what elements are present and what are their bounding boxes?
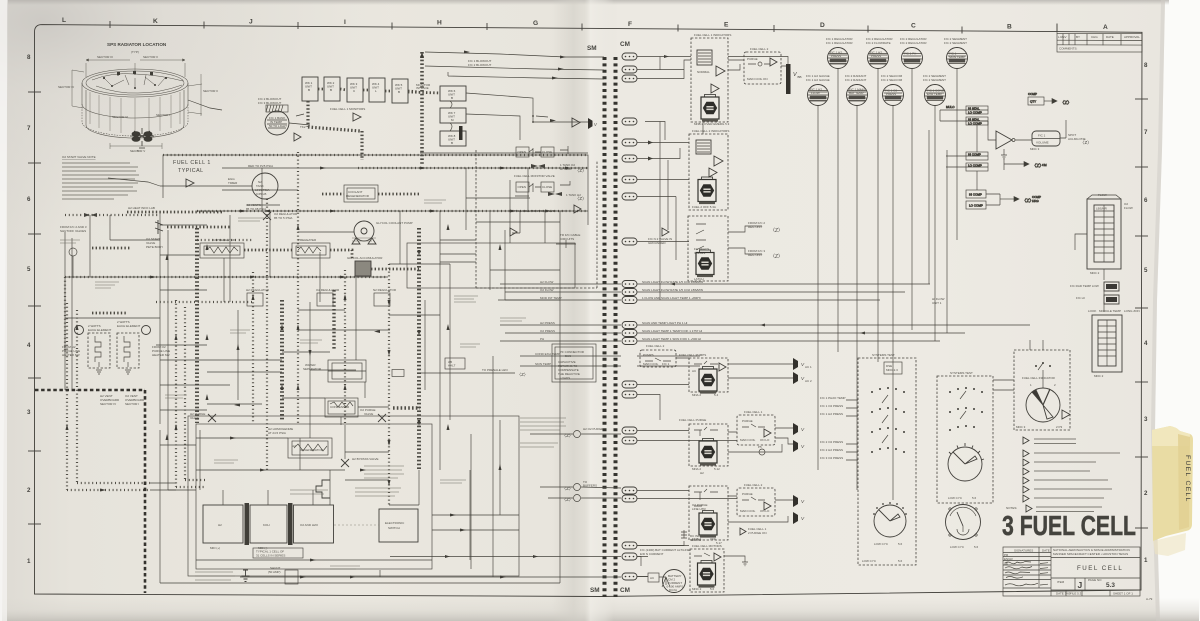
monitor column box W7 (440, 108, 466, 123)
breaker CB16 (622, 381, 637, 388)
stair step symbol (316, 480, 330, 498)
svg-text:3: 3 (27, 409, 31, 416)
rim valve fittings (103, 71, 167, 89)
wire v510 (509, 180, 511, 243)
monitor column box W8 (440, 131, 466, 146)
svg-text:B: B (398, 90, 400, 94)
inter-box pipe links (318, 89, 419, 92)
wires out right (728, 226, 762, 254)
zone letters top (62, 17, 1108, 31)
breaker CB19 (622, 437, 637, 444)
svg-text:F/C 2 SEACOM: F/C 2 SEACOM (881, 78, 903, 82)
top ticks (110, 21, 1057, 34)
purge valve right (378, 414, 386, 422)
wire v310 (309, 302, 311, 438)
svg-text:FUEL CELL: FUEL CELL (1077, 565, 1123, 572)
glycol accumulator (355, 261, 371, 276)
wire v505 (504, 230, 506, 300)
wire h372 (207, 371, 282, 373)
dimension lines top (72, 59, 202, 149)
wire h445 (160, 444, 196, 446)
svg-text:OPEN: OPEN (518, 185, 527, 189)
svg-text:BUFFERS: BUFFERS (583, 484, 597, 488)
left ticks (28, 92, 41, 524)
wire v270 (269, 211, 271, 277)
wire arrows (560, 56, 566, 59)
CM breaker column (622, 53, 637, 580)
F/C bank temp gauge cluster (258, 97, 310, 141)
svg-text:H2 HEAT INFO LAB: H2 HEAT INFO LAB (128, 206, 155, 210)
svg-text:FUEL CELL 2: FUEL CELL 2 (646, 344, 665, 348)
line y583 continues (379, 570, 381, 577)
svg-text:TIMER: TIMER (228, 181, 238, 185)
svg-text:CIRCUITS: CIRCUITS (560, 237, 574, 241)
svg-text:O2 PRESS: O2 PRESS (540, 329, 555, 333)
svg-text:F/C 2 REGULATOR: F/C 2 REGULATOR (900, 41, 927, 45)
amp triangle 1 (716, 66, 725, 76)
svg-text:B: B (451, 96, 453, 100)
breaker CB21 (622, 495, 637, 502)
breaker CB5 (622, 139, 637, 146)
stack cell 2 (250, 505, 287, 543)
fuel cell radiator indicator (993, 340, 1070, 430)
bypass valve (341, 459, 349, 467)
wire v440 (439, 211, 441, 470)
svg-text:FLOW: FLOW (1098, 193, 1107, 197)
leader lines (289, 114, 310, 125)
line v528 (527, 168, 529, 211)
breaker CB2 (622, 66, 637, 73)
rotary hex unit 1 (701, 95, 719, 122)
svg-text:MNB 2 OVER EMERG 5.3: MNB 2 OVER EMERG 5.3 (694, 122, 730, 126)
hex unit motors (698, 561, 716, 588)
svg-text:SYSTEMS TEST: SYSTEMS TEST (872, 353, 895, 357)
svg-text:COMP: COMP (1028, 92, 1037, 96)
svg-text:FUEL CELL MONITOR VALVE: FUEL CELL MONITOR VALVE (514, 174, 555, 178)
purge valve left (208, 414, 216, 422)
V flag near SM (588, 118, 593, 129)
svg-text:CONDENSER: CONDENSER (330, 405, 350, 409)
svg-text:ITEM: ITEM (1057, 580, 1065, 584)
svg-text:BY: BY (1076, 35, 1080, 39)
comparator pair 1 (940, 105, 988, 126)
wire v168 (168, 230, 196, 490)
svg-text:SWITCH: SWITCH (388, 526, 400, 530)
breaker CB10 (622, 281, 637, 288)
QTY boxes (1028, 92, 1072, 105)
svg-text:(TYP): (TYP) (131, 50, 139, 54)
svg-text:B: B (1007, 24, 1012, 31)
wire v545 (544, 211, 546, 243)
dashed link stack to switch (334, 524, 379, 526)
svg-text:F/C 1: F/C 1 (1038, 134, 1046, 138)
systems test box 2 (937, 371, 993, 503)
stub h254 (440, 253, 476, 255)
left boundary lines (65, 232, 72, 390)
ground right (724, 556, 748, 566)
svg-text:E/D N CURRENT: E/D N CURRENT (640, 552, 664, 556)
svg-text:VOLUME: VOLUME (1036, 141, 1049, 145)
svg-text:GLYCOL COOLANT PUMP: GLYCOL COOLANT PUMP (376, 221, 413, 225)
top gauges row 1 (826, 37, 968, 69)
svg-text:P5: P5 (758, 445, 762, 449)
svg-text:COND EXH TEMP: COND EXH TEMP (535, 352, 560, 356)
pipe links preheaters (244, 249, 292, 252)
rotary hex unit 3 (696, 250, 714, 277)
svg-text:PUMPS: PUMPS (643, 353, 654, 357)
monitor box W2 (324, 77, 340, 101)
flow arrows (66, 167, 572, 579)
pipe y302 (156, 301, 253, 303)
wire v356 (355, 277, 357, 360)
svg-text:SEL SW: SEL SW (690, 538, 701, 542)
breaker CB14 (622, 330, 637, 337)
wire v200b (199, 430, 201, 490)
svg-text:H2: H2 (218, 523, 222, 527)
SM buffer flag rows (540, 484, 621, 502)
wire h198 (466, 197, 530, 199)
charging relay zener (242, 570, 250, 582)
svg-text:MNA 2: MNA 2 (692, 393, 701, 397)
svg-text:H2 PRESS: H2 PRESS (540, 321, 555, 325)
rotary selector (874, 505, 906, 537)
toggle 1 (529, 148, 541, 157)
glycol pump (352, 221, 376, 244)
right side rows (1051, 557, 1140, 559)
svg-text:PURGE: PURGE (747, 57, 758, 61)
connector stubs (509, 146, 570, 233)
svg-text:SCAN LIGHT TEMP 1 TEMP F/OK 1: SCAN LIGHT TEMP 1 TEMP F/OK 1 1757 HI (642, 329, 702, 333)
amp triangle right (572, 118, 580, 127)
small ac box (648, 573, 659, 582)
svg-text:-8: -8 (136, 149, 139, 153)
inline component on water line (392, 370, 404, 377)
svg-text:SECTOR II: SECTOR II (203, 89, 218, 93)
CM wiring arrows (648, 55, 865, 335)
wire v490 (489, 211, 491, 290)
svg-text:〈Z〉: 〈Z〉 (770, 228, 783, 234)
svg-text:2 PURGE ON: 2 PURGE ON (748, 531, 767, 535)
svg-text:FUEL CELL PUMPS: FUEL CELL PUMPS (679, 353, 706, 357)
big page title (1002, 510, 1136, 541)
svg-text:〈Z〉: 〈Z〉 (562, 486, 573, 491)
line v560b (559, 211, 561, 300)
plumbing mesh lines (65, 153, 588, 560)
regulator C (374, 293, 390, 306)
svg-text:CM: CM (620, 587, 630, 594)
wire h455 (345, 451, 389, 453)
svg-text:MAIN COIL: MAIN COIL (740, 509, 756, 513)
open box 2 (516, 182, 529, 192)
electronic switch box (379, 509, 418, 542)
gauge G8 (925, 85, 946, 106)
flag under label (186, 179, 194, 187)
svg-text:FUEL CELL: FUEL CELL (1184, 455, 1191, 503)
svg-text:SECTOR I: SECTOR I (125, 402, 139, 406)
stack divider 2 (288, 503, 293, 545)
inner boundary v471 (470, 434, 472, 569)
svg-text:LONG ZON: LONG ZON (1124, 309, 1140, 313)
svg-text:F: F (628, 21, 632, 28)
SM dashed line (603, 57, 607, 597)
pipe from accumulator (371, 268, 419, 271)
wire v470r (469, 470, 471, 560)
svg-text:FUEL CELL MOTORS: FUEL CELL MOTORS (692, 544, 722, 548)
svg-text:J: J (249, 19, 253, 26)
svg-text:5.12: 5.12 (714, 467, 720, 471)
svg-text:〈Z〉: 〈Z〉 (575, 196, 586, 201)
battery current meter (663, 570, 686, 593)
svg-text:MNC 2: MNC 2 (692, 587, 702, 591)
wire riser x419 to stack (418, 470, 420, 505)
amp tri (764, 429, 771, 437)
amp triangle 2 (711, 84, 719, 93)
svg-text:2: 2 (1144, 490, 1148, 497)
svg-text:LOW CYC: LOW CYC (950, 545, 965, 549)
module: FC REACS VALVES (648, 216, 783, 281)
svg-text:LO COMP: LO COMP (968, 111, 982, 115)
svg-text:F/C 2 H2 PRESS: F/C 2 H2 PRESS (820, 448, 843, 452)
svg-text:F/C 1 PH: F/C 1 PH (904, 52, 916, 56)
hatched links to regenerator (322, 193, 344, 196)
gauge G3 (902, 48, 923, 69)
breaker CB13 (622, 322, 637, 329)
wire v224 (223, 258, 225, 302)
V flag 1 (793, 358, 798, 370)
typical cell label box (253, 548, 303, 558)
svg-text:O2 REGULATOR: O2 REGULATOR (316, 288, 340, 292)
coolant regenerator (344, 185, 378, 202)
svg-text:7: 7 (27, 125, 31, 132)
column links (450, 101, 452, 131)
svg-text:PETE BODY: PETE BODY (146, 245, 163, 249)
drum panel ribs (90, 92, 180, 133)
wire v238 (237, 310, 239, 400)
wire h345 (156, 344, 207, 346)
amp flag left (294, 133, 301, 141)
radiator drum rim (82, 69, 188, 138)
svg-text:6: 6 (27, 196, 31, 203)
svg-text:FUEL CELL PURGE: FUEL CELL PURGE (679, 418, 706, 422)
wire h330 (298, 329, 390, 331)
svg-text:SM: SM (587, 45, 597, 52)
svg-text:SECTOR IV: SECTOR IV (100, 402, 116, 406)
svg-text:SECTOR I: SECTOR I (156, 113, 170, 117)
rim plumbing lines (92, 74, 183, 94)
breaker CB18 (622, 427, 637, 434)
notes list (1006, 437, 1120, 512)
wire h232 (298, 231, 354, 233)
wire h290 (160, 289, 207, 291)
gauge G1 (828, 48, 849, 69)
svg-text:PRESS: PRESS (831, 54, 841, 58)
vertical pipe x253 (252, 272, 254, 422)
svg-text:〈Z〉: 〈Z〉 (575, 168, 586, 173)
svg-text:F/C 1 H2 PRESS: F/C 1 H2 PRESS (820, 412, 843, 416)
wire h470 (196, 469, 345, 471)
heater grounds (96, 370, 131, 374)
heavy dashed spacecraft boundary vertical (144, 390, 147, 593)
SM / CM divider (587, 41, 630, 597)
module rows lower (637, 385, 737, 577)
svg-text:FUEL 2 OFF 5.3A: FUEL 2 OFF 5.3A (692, 205, 716, 209)
stack cell 1 (203, 505, 243, 543)
leader to fc blocks (188, 100, 222, 110)
svg-text:F/C 2 BLOWOUT: F/C 2 BLOWOUT (468, 63, 492, 67)
svg-text:TYPICAL: TYPICAL (178, 168, 204, 174)
breaker CB1 (622, 53, 637, 60)
svg-text:HALT: HALT (448, 364, 456, 368)
svg-text:C: C (911, 23, 916, 30)
svg-text:RED TO P25 PSIA: RED TO P25 PSIA (248, 164, 273, 168)
svg-text:LO COMP: LO COMP (968, 164, 982, 168)
svg-text:GLYCOL ACCUMULATOR: GLYCOL ACCUMULATOR (347, 256, 383, 260)
battery line bottom (240, 576, 621, 578)
svg-text:FUEL CELL 1: FUEL CELL 1 (173, 160, 211, 166)
wire h410 (160, 409, 207, 411)
wire h264 (389, 263, 450, 265)
top gauges row 2 (806, 74, 946, 106)
svg-text:CM: CM (1042, 163, 1047, 167)
link h500 (389, 504, 419, 506)
CM wiring to modules (637, 57, 1030, 577)
svg-text:KOH: KOH (263, 523, 270, 527)
svg-text:F/C 2 FLOWRATE: F/C 2 FLOWRATE (866, 41, 891, 45)
svg-text:K: K (153, 18, 158, 25)
wire h255 (160, 254, 200, 256)
main vertical pipe x298 (297, 152, 299, 423)
wires (728, 428, 793, 452)
svg-text:ENGR: ENGR (1004, 557, 1014, 561)
svg-text:AT 24.5 PSIA: AT 24.5 PSIA (268, 431, 286, 435)
regulator A (247, 293, 263, 306)
svg-text:MAIN COIL: MAIN COIL (643, 362, 659, 366)
wires + V flags (728, 496, 793, 522)
breaker CB6 (622, 155, 637, 162)
wire h225 (160, 224, 207, 226)
svg-text:GROUNDED: GROUNDED (648, 241, 666, 245)
O2 preheater (200, 243, 244, 258)
hatched label box (266, 105, 288, 112)
amp tri (719, 363, 726, 371)
wire v330s (329, 470, 331, 505)
wire h385 (160, 384, 230, 386)
breaker CB22 (622, 542, 637, 549)
svg-text:ON LO: ON LO (760, 438, 770, 442)
SM purge flag row 1 (530, 431, 621, 438)
svg-text:NORMAL: NORMAL (697, 70, 710, 74)
SPS radiator location drawing (58, 42, 222, 153)
svg-text:TO PRESALE H2O: TO PRESALE H2O (482, 368, 508, 372)
line h153 (420, 152, 588, 154)
gauge drop lines (818, 69, 957, 501)
svg-text:A: A (1103, 24, 1108, 31)
hex unit htr (699, 511, 717, 538)
svg-text:MANNED SPACECRAFT CENTER • HOU: MANNED SPACECRAFT CENTER • HOUSTON TEXAS (1053, 552, 1128, 556)
svg-text:F/C 3 O2 PRESS: F/C 3 O2 PRESS (820, 456, 843, 460)
svg-text:MODULE TEMP: MODULE TEMP (1099, 309, 1121, 313)
wire v466 (465, 168, 467, 230)
comparator pair 2 (946, 152, 988, 171)
svg-text:FUEL CELL 1: FUEL CELL 1 (744, 410, 763, 414)
svg-text:F/C 2 RADIANT: F/C 2 RADIANT (845, 78, 867, 82)
svg-text:B: B (451, 141, 453, 145)
svg-text:H2 O2 PURGE: H2 O2 PURGE (583, 427, 603, 431)
svg-text:F/C 2 SEGMENT: F/C 2 SEGMENT (923, 78, 946, 82)
wire h205tap (247, 204, 280, 206)
signature scribbles (1005, 562, 1048, 586)
hatched ladder pipe x419 (417, 228, 421, 470)
svg-text:O2 PREHEATER: O2 PREHEATER (212, 238, 236, 242)
svg-text:FLOW: FLOW (811, 91, 820, 95)
wire v365 (364, 382, 366, 398)
H2O qty tank meter (1088, 309, 1140, 378)
svg-text:85 TO 98 PSIA: 85 TO 98 PSIA (246, 207, 266, 211)
cond link (341, 407, 389, 425)
svg-text:O2 FLOW: O2 FLOW (540, 288, 554, 292)
amp at right (1062, 410, 1070, 419)
svg-text:1: 1 (27, 558, 31, 565)
svg-text:5: 5 (27, 266, 31, 273)
middle long verticals from comparators down (977, 120, 1104, 312)
toggle 2 (529, 183, 541, 192)
svg-text:HI TEMP: HI TEMP (560, 167, 572, 171)
pipe y240 (197, 239, 253, 241)
wires into box (993, 340, 1043, 390)
top-left corner shading (0, 0, 700, 420)
svg-text:SE: SE (1004, 561, 1008, 565)
svg-text:PURGE: PURGE (742, 492, 753, 496)
svg-text:SEPARATOR: SEPARATOR (303, 367, 322, 371)
gauge G7 (883, 85, 904, 106)
svg-text:5.6: 5.6 (974, 545, 979, 549)
top small box (884, 362, 902, 374)
wire h515 (432, 514, 519, 516)
bottom collector lines (160, 300, 560, 583)
svg-text:CHG: CHG (1091, 35, 1098, 39)
svg-text:5.6: 5.6 (898, 542, 903, 546)
switch dots above circle (1035, 362, 1051, 367)
monitor column box W6 (440, 86, 466, 101)
svg-text:7: 7 (1144, 129, 1148, 136)
flag under label (353, 113, 361, 121)
left margin web (60, 213, 160, 277)
shunt box (285, 570, 298, 584)
wire v230 (229, 215, 231, 302)
gauge G4 (947, 48, 968, 69)
svg-text:F/C 1: F/C 1 (662, 362, 670, 366)
P5 circle (759, 449, 765, 455)
short pipes left regulators (92, 247, 130, 250)
heater circle Z (142, 326, 151, 335)
svg-text:BAT TEMP: BAT TEMP (849, 91, 864, 95)
wire v160 (159, 211, 161, 424)
svg-text:50 TO LIGHT: 50 TO LIGHT (269, 124, 287, 128)
wires to V flags (676, 358, 793, 378)
svg-text:F/C 1 H2 GAUGE: F/C 1 H2 GAUGE (806, 78, 830, 82)
glycol valve propeller under drum (130, 128, 154, 148)
svg-text:〈Z〉: 〈Z〉 (562, 433, 573, 438)
wire h318 (65, 317, 160, 319)
svg-text:CLOSE: CLOSE (542, 185, 552, 189)
svg-text:1: 1 (1144, 557, 1148, 564)
panel meter round (946, 505, 981, 550)
water separator (328, 360, 366, 382)
heater circle L (75, 326, 84, 335)
selector contacts (871, 387, 905, 453)
O2 regulator valve (263, 212, 271, 220)
wire v400 (399, 211, 401, 264)
